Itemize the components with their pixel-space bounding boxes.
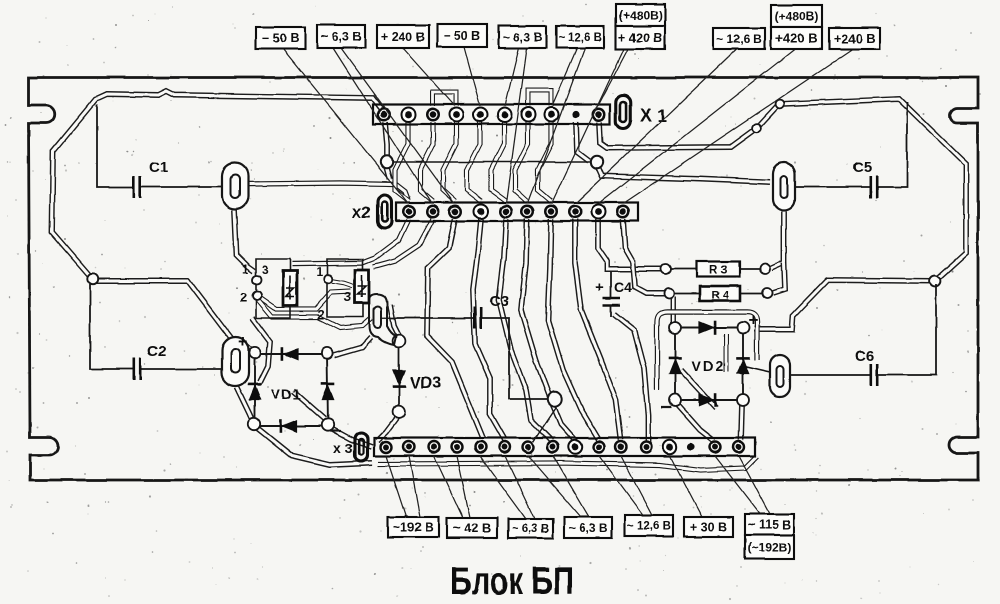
node pad X1 pin 7	[522, 108, 536, 122]
svg-text:+: +	[595, 279, 604, 296]
svg-text:Блок БП: Блок БП	[450, 560, 574, 603]
wire leader +420V to X1p10	[598, 49, 628, 106]
node pad X1 pin 8	[545, 108, 559, 122]
diode VD3 (down)	[393, 370, 406, 386]
svg-text:VD1: VD1	[271, 386, 301, 402]
wire C6 left lead	[790, 374, 871, 376]
wire leader ~12.6V to X2p8	[576, 49, 737, 203]
wire VD2 copper outline	[657, 312, 757, 390]
label (~192V)	[745, 535, 794, 559]
wire X2p10 to R4 left	[623, 219, 665, 293]
svg-text:2: 2	[240, 290, 247, 305]
wire T2 pin hook	[332, 281, 353, 286]
node pad X1 pin 9 dot	[575, 113, 577, 115]
svg-text:~ 6,3 В: ~ 6,3 В	[321, 30, 362, 44]
wire feed to VD1 inner	[252, 318, 270, 382]
node pad R4 left pad	[664, 288, 674, 298]
wire leader X3p11 to ~12.6V	[621, 456, 652, 515]
wire C3 pad to X3	[533, 406, 557, 442]
label ~42V	[447, 518, 497, 538]
wire X2p8 S to X3p11	[575, 219, 621, 440]
wire relay mid band	[253, 291, 351, 309]
wire T1 box	[256, 259, 290, 318]
node C5 pad (oval slot pad)	[773, 163, 795, 210]
svg-text:X 1: X 1	[640, 106, 667, 126]
wire X2p2 band b	[373, 219, 433, 267]
svg-text:+: +	[238, 332, 248, 351]
wire leader X3p3 to ~42V	[434, 456, 463, 518]
wire VD1 BL band to X3	[256, 427, 372, 465]
node pad X2 pin 6	[521, 205, 535, 219]
wire leader X3p6 to ~6.3V	[505, 456, 535, 519]
node oval pad near C3	[369, 294, 396, 345]
label (+480V) no.1	[616, 4, 665, 26]
label ~6.3V no.2	[499, 26, 546, 48]
label ~6.3V bottom2	[564, 517, 612, 538]
wire leader +240V to X2p10	[624, 49, 853, 203]
connector X3 bar	[374, 438, 755, 456]
node pad VD3 bottom pad	[393, 406, 406, 419]
wire C3 left lead	[380, 317, 475, 319]
svg-text:VD2: VD2	[692, 358, 725, 374]
wire leader +420V to X2p7	[552, 49, 624, 203]
label +240V no.2	[829, 28, 880, 49]
node pad X1 pin 4	[450, 108, 464, 122]
wire via2 to C5 pad	[598, 167, 770, 182]
wire under X3 bar	[378, 456, 757, 470]
svg-text:~ 42 В: ~ 42 В	[453, 521, 492, 536]
diode VD2 right (up)	[737, 358, 750, 374]
label -50V no.2	[437, 24, 487, 47]
svg-text:(+480В): (+480В)	[619, 8, 663, 22]
node slot near X3 (mount slot)	[355, 433, 368, 462]
svg-text:+ 30 В: + 30 В	[690, 521, 727, 535]
node C1 pad (oval slot pad)	[222, 163, 248, 209]
wire C4 S to X3p12	[614, 314, 648, 442]
wire C5 tail to R4	[773, 262, 785, 293]
wire R3 right wire	[740, 268, 762, 270]
svg-text:~ 12,6 В: ~ 12,6 В	[558, 32, 602, 44]
svg-text:~ 6,3 В: ~ 6,3 В	[568, 521, 607, 535]
node bump pad left	[88, 274, 98, 284]
wire VD3 lead	[398, 345, 400, 408]
node bump on trace	[776, 100, 785, 109]
node pad R4 right pad	[762, 288, 772, 298]
svg-text:+420 В: +420 В	[775, 31, 817, 46]
svg-text:~ 12,6 В: ~ 12,6 В	[716, 32, 762, 46]
wire VD2 minus	[661, 406, 671, 408]
node pad X2 pin 5	[499, 205, 513, 219]
wire T2 box	[327, 259, 363, 317]
svg-text:VD3: VD3	[410, 375, 441, 392]
wire VD1 inner diagonal	[293, 391, 325, 419]
wire leader ~6.3V to X1p6	[505, 48, 519, 106]
node pad VD3 top pad	[393, 335, 406, 348]
diode VD1 top (left-pointing)	[282, 348, 298, 361]
diode VD2 bottom (right)	[699, 394, 715, 407]
wire relay low band	[257, 299, 371, 328]
board outline	[29, 78, 979, 481]
wire leader X3p2 to ~192V	[409, 456, 420, 517]
wire VD2 inner diagonal	[681, 370, 716, 408]
wire leader ~6.3V to X2p3	[341, 48, 454, 203]
wire leader X3p13 to +30V	[670, 456, 702, 517]
svg-text:x 3: x 3	[333, 440, 353, 456]
node pad X1 pin 10	[592, 108, 606, 122]
wire VD1 square	[255, 354, 328, 426]
wire X1-X2 link c	[443, 122, 456, 201]
wire X1-X2 link g	[538, 122, 551, 201]
node slot near X2 (mount slot)	[378, 195, 392, 228]
svg-text:C1: C1	[149, 159, 168, 176]
node pad X3 pin 14	[708, 440, 721, 453]
node pad X3 pin 9	[569, 440, 582, 453]
node pad X3 pin 2	[402, 440, 415, 453]
svg-text:~192 В: ~192 В	[393, 521, 434, 535]
wire C6 right lead	[877, 284, 936, 375]
wire C1 pad tail	[234, 210, 254, 271]
svg-text:1: 1	[242, 262, 249, 276]
wire X1p1 to via	[385, 122, 387, 157]
node pad X3 pin 5	[474, 440, 487, 453]
node junction bump	[930, 276, 941, 287]
wire leader X3p15 to ~115V	[715, 456, 760, 514]
label +420V no.2	[771, 27, 822, 49]
wire VD3 bottom to X3	[377, 416, 398, 441]
diode VD1 right (up)	[322, 384, 335, 400]
wire X1p9 to via2	[576, 122, 589, 161]
node pad VD2 TL pad	[669, 322, 681, 334]
svg-text:3: 3	[262, 263, 269, 277]
svg-text:1: 1	[316, 265, 323, 279]
node pad VD2 TR pad	[737, 322, 749, 334]
wire X1 loop pads3-4	[433, 92, 456, 106]
wire C5 left lead	[795, 186, 871, 188]
wire X2p9 to R3 left	[598, 219, 662, 269]
wire VD1 TR to oval pad	[334, 337, 371, 355]
wire C4 top lead	[610, 271, 612, 297]
wire C1 pad to X2p1	[249, 183, 408, 199]
svg-text:~ 115 В: ~ 115 В	[748, 518, 791, 532]
node pad VD1 BR pad	[322, 419, 334, 431]
node C2 pad (oval slot pad)	[222, 337, 249, 386]
wire X2p4 S to X3p6	[473, 219, 505, 440]
wire X1-X2 link d	[467, 122, 481, 201]
svg-text:+ 240 В: + 240 В	[381, 30, 425, 44]
capacitor C2 plates	[133, 358, 136, 380]
diode VD2 top (right)	[699, 322, 715, 335]
svg-text:R 4: R 4	[711, 290, 729, 302]
wire X2p3 S to X3p5	[427, 219, 483, 438]
wire X2p1 top band	[292, 219, 409, 264]
node pad VD1 TR pad	[321, 347, 332, 358]
svg-text:~ 6,3 В: ~ 6,3 В	[503, 30, 542, 44]
node via left	[381, 156, 393, 168]
label (+480V) no.2	[771, 5, 822, 27]
node pad X2 pin 7	[544, 205, 558, 219]
wire VD2 BL to X3p15	[676, 403, 714, 441]
svg-text:+ 420 В: + 420 В	[618, 31, 662, 45]
connector X1 bar	[373, 105, 610, 125]
node pad T2 pin1 pad	[324, 275, 333, 284]
wire X2p5 S to X3p8	[499, 219, 552, 441]
node bump on trace	[753, 124, 762, 133]
wire C1 left lead	[97, 104, 134, 187]
wire C2pad to VD1 BL	[237, 387, 253, 421]
label ~6.3V bottom1	[508, 519, 553, 538]
node pad R3 right pad	[760, 264, 770, 274]
svg-text:C5: C5	[853, 159, 872, 176]
wire leader ~6.3V to X2p2	[333, 48, 432, 203]
wire X1-X2 link b	[420, 122, 433, 201]
connector X2 bar	[396, 203, 638, 222]
node pad X2 pin 3	[449, 205, 463, 219]
label ~6.3V no.1	[317, 25, 365, 48]
diode VD2 left (up)	[669, 358, 682, 374]
component T1 core	[283, 271, 297, 305]
svg-text:C2: C2	[147, 343, 166, 360]
svg-text:+240 В: +240 В	[833, 31, 875, 46]
wire C4 bottom lead	[610, 305, 612, 317]
node pad VD2 BL pad	[669, 394, 681, 406]
svg-text:− 50 В: − 50 В	[443, 29, 480, 43]
node pad X2 pin 1	[402, 205, 416, 219]
wire top-left loop	[52, 91, 384, 276]
node pad X3 pin 1	[379, 440, 392, 453]
node pad X2 pin 4	[474, 205, 488, 219]
wire right loop to VD2 plus	[754, 280, 935, 329]
capacitor C3 plates	[473, 307, 476, 329]
svg-text:2: 2	[317, 307, 324, 322]
wire left horiz y281 to C2 pad	[93, 281, 232, 339]
wire C3 right lead	[481, 318, 548, 399]
node pad R3 left pad	[661, 264, 671, 274]
node pad X2 pin 10	[616, 205, 630, 219]
wire C2 left lead	[90, 284, 134, 369]
svg-text:C6: C6	[855, 348, 874, 365]
label +30V	[684, 517, 733, 537]
svg-text:C3: C3	[490, 293, 509, 310]
node pad X1 pin 1	[377, 108, 391, 122]
wire X1-X2 link f	[515, 122, 528, 201]
svg-text:3: 3	[344, 289, 351, 304]
wire via tail	[387, 168, 390, 179]
wire VD2 copper channel	[724, 334, 729, 372]
wire leader ~12.6V to X2p6	[528, 48, 585, 203]
node pad X2 pin 8	[568, 205, 582, 219]
svg-text:+: +	[748, 311, 758, 330]
node pad X2 pin 2	[426, 205, 440, 219]
wire VD3 top feed	[390, 305, 399, 336]
wire X2p7 S to X3p10	[548, 219, 599, 440]
capacitor C5 plates	[869, 176, 872, 198]
label +420V no.1	[616, 26, 665, 49]
wire leader ~6.3V to X2p5	[506, 48, 527, 203]
wire X2p6 S to X3p9	[521, 219, 576, 441]
label ~12.6V bottom	[625, 515, 673, 536]
svg-text:(+480В): (+480В)	[775, 9, 819, 23]
wire VD2 to C6 pad	[744, 366, 770, 372]
wire C1 right lead	[140, 186, 228, 188]
wire VD2 square	[675, 328, 743, 400]
wire VD1 minus	[330, 430, 341, 432]
label ~12.6V no.1	[556, 26, 604, 48]
svg-text:~ 6,3 В: ~ 6,3 В	[512, 524, 549, 536]
label ~115V	[745, 514, 794, 535]
node pad C3	[548, 392, 562, 406]
svg-text:~ 12,6 В: ~ 12,6 В	[627, 521, 671, 533]
wire R4 right wire	[740, 292, 764, 294]
node pad X1 pin 6	[498, 108, 512, 122]
wire VD2 BR to X3p16	[741, 404, 742, 440]
wire leader +420V to X2p9	[599, 49, 795, 203]
node C6 pad (oval slot pad)	[770, 355, 790, 397]
capacitor C6 plates	[869, 364, 872, 386]
wire X1p10 right loop	[599, 99, 966, 281]
wire jumper wire	[392, 161, 592, 163]
wire VD1 BR to X3	[330, 428, 372, 447]
node pad X3 pin 12	[639, 440, 652, 453]
wire leader +240V to X1p4	[403, 48, 455, 106]
label ~12.6V no.2	[713, 28, 765, 49]
wire leader X3p5 to ~6.3V	[480, 456, 526, 519]
wire R4 left wire	[674, 292, 700, 294]
wire X1 loop pads7-8	[528, 90, 551, 106]
node pad X2 pin 9	[592, 205, 606, 219]
node pad X3 pin 6	[498, 440, 511, 453]
wire C2 pad to VD1 TL	[243, 342, 252, 350]
diode VD1 bottom (left-pointing)	[281, 420, 297, 433]
node pad VD2 BR pad	[737, 394, 749, 406]
wire leader -50V to X1p5	[464, 47, 480, 106]
node pad X1 pin 5	[474, 108, 488, 122]
node pad X3 pin 11	[614, 440, 627, 453]
wire leader X3p10 to ~12.6V	[599, 456, 643, 515]
component T2 core	[355, 270, 369, 303]
capacitor C1 plates	[133, 176, 136, 198]
node pad T1 pin1 pad	[253, 276, 262, 285]
node pad X3 pin 8	[546, 440, 559, 453]
svg-text:R 3: R 3	[710, 265, 728, 277]
node pad X3 pin 14	[687, 443, 694, 450]
node slot near X1 (mount slot)	[616, 96, 631, 129]
wire leader X3p8 to ~6.3V b	[553, 456, 589, 517]
wire X1-X2 link e	[491, 122, 506, 201]
node pad X3 pin 13	[663, 440, 676, 453]
svg-text:x2: x2	[352, 203, 371, 222]
svg-text:− 50 В: − 50 В	[262, 32, 299, 46]
wire R3 left wire	[670, 268, 697, 270]
node pad X3 pin 4	[450, 440, 463, 453]
node pad X1 pin 3	[426, 108, 440, 122]
node pad X3 pin 15	[732, 440, 745, 453]
wire leader ~12.6V to X1p8	[552, 48, 577, 106]
node pad X1 pin 2	[402, 108, 416, 122]
wire leader X3p7 to ~6.3V b	[528, 456, 581, 517]
diode VD1 left (up)	[249, 384, 262, 400]
wire R4 line to VD2 TL	[670, 296, 676, 324]
node pad VD1 BL pad	[248, 418, 260, 430]
wire X1-X2 link a	[395, 122, 409, 201]
wire C2 right lead	[140, 368, 228, 370]
svg-text:C4: C4	[614, 279, 632, 295]
node pad X1 pin 9	[572, 111, 579, 118]
node via right	[591, 156, 603, 168]
wire leader X3p16 to ~115V	[739, 456, 770, 514]
wire leader X3p1 to ~192V	[386, 456, 406, 517]
wire C5 right lead	[877, 102, 907, 187]
wire leader X3p4 to ~42V	[457, 456, 470, 518]
node pad T1 pin2 pad	[253, 292, 262, 301]
label ~192V	[388, 517, 439, 537]
wire C5 tail to R3	[771, 211, 784, 268]
wire leader -50V to X2p1	[283, 49, 408, 203]
svg-text:(~192В): (~192В)	[748, 540, 792, 554]
node pad X3 pin 3	[427, 440, 440, 453]
node pad VD1 TL pad	[249, 347, 260, 358]
node pad X3 pin 7	[521, 440, 534, 453]
node pad X3 pin 10	[592, 440, 605, 453]
label -50V no.1	[256, 27, 305, 49]
label +240V no.1	[377, 25, 429, 48]
